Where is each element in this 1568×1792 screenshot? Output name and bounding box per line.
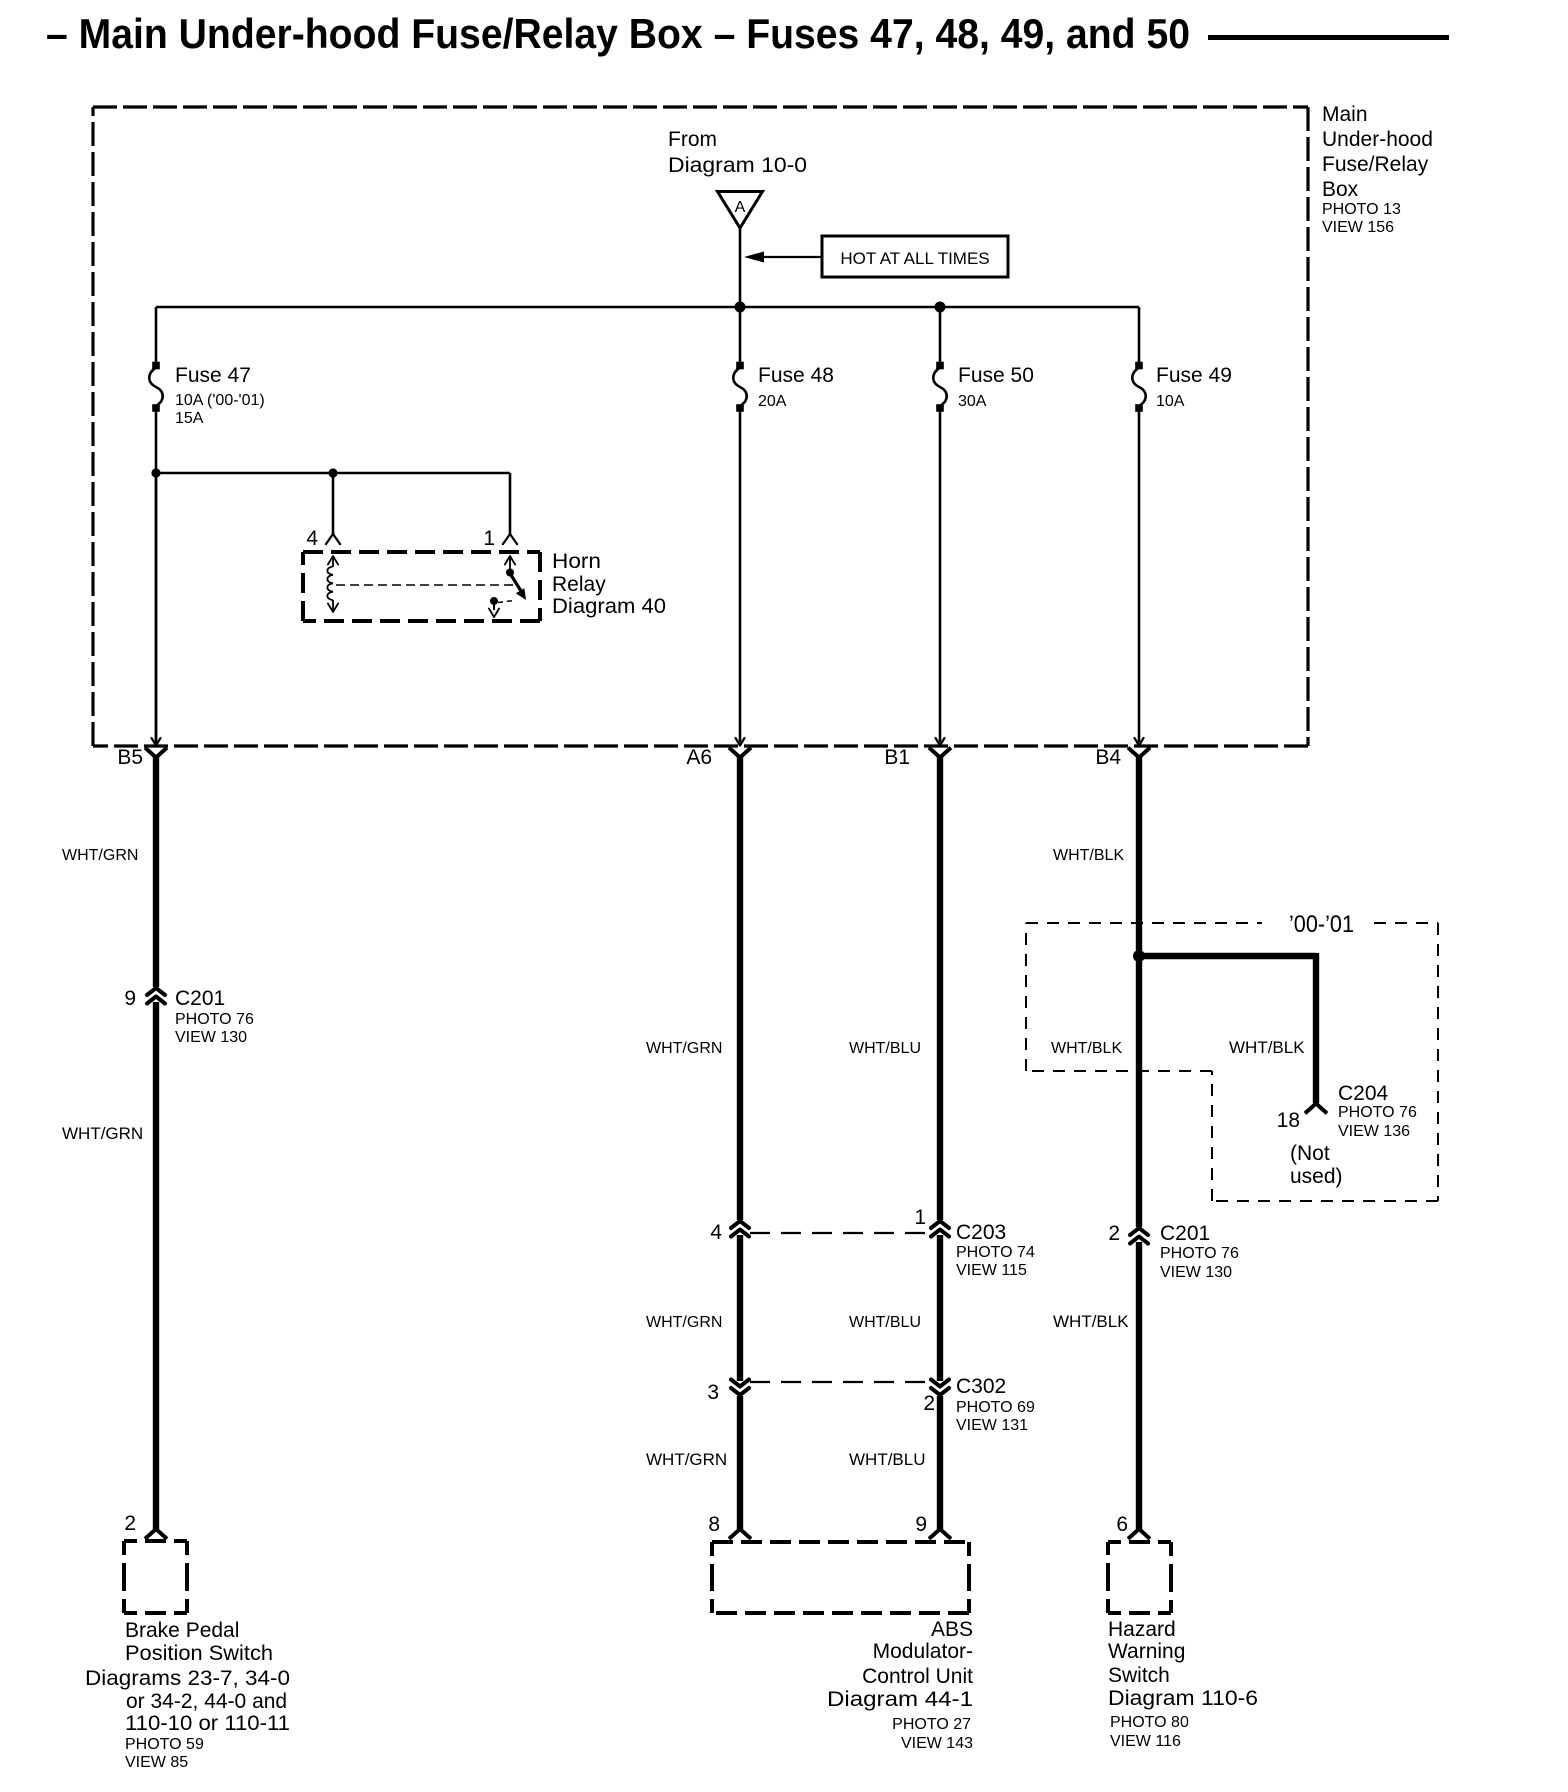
svg-text:A: A <box>735 199 746 216</box>
svg-text:used): used) <box>1290 1165 1343 1188</box>
svg-text:Under-hood: Under-hood <box>1322 128 1433 151</box>
svg-text:10A: 10A <box>1156 393 1185 410</box>
svg-text:9: 9 <box>124 987 136 1010</box>
svg-text:PHOTO 13: PHOTO 13 <box>1322 201 1401 218</box>
svg-text:Position Switch: Position Switch <box>125 1642 273 1665</box>
svg-text:18: 18 <box>1277 1109 1300 1132</box>
svg-text:Fuse 48: Fuse 48 <box>758 364 834 387</box>
svg-text:Diagrams 23-7, 34-0: Diagrams 23-7, 34-0 <box>85 1667 290 1690</box>
svg-text:Diagram 110-6: Diagram 110-6 <box>1108 1687 1258 1710</box>
svg-text:Fuse 47: Fuse 47 <box>175 364 251 387</box>
svg-text:Main: Main <box>1322 103 1368 126</box>
svg-text:VIEW 156: VIEW 156 <box>1322 219 1394 236</box>
svg-text:30A: 30A <box>958 393 987 410</box>
svg-text:From: From <box>668 128 717 151</box>
svg-text:PHOTO 74: PHOTO 74 <box>956 1244 1035 1261</box>
svg-text:Relay: Relay <box>552 573 606 596</box>
svg-text:PHOTO 76: PHOTO 76 <box>175 1011 254 1028</box>
svg-text:Fuse 49: Fuse 49 <box>1156 364 1232 387</box>
svg-text:1: 1 <box>483 527 495 550</box>
svg-text:C201: C201 <box>1160 1222 1210 1245</box>
svg-text:WHT/BLU: WHT/BLU <box>849 1314 921 1331</box>
svg-text:’00-’01: ’00-’01 <box>1289 911 1354 938</box>
svg-text:VIEW 143: VIEW 143 <box>901 1735 973 1752</box>
svg-text:2: 2 <box>1108 1222 1120 1245</box>
svg-text:(Not: (Not <box>1290 1142 1330 1165</box>
svg-text:Diagram 10-0: Diagram 10-0 <box>668 154 807 177</box>
svg-text:PHOTO 59: PHOTO 59 <box>125 1736 204 1753</box>
svg-text:Box: Box <box>1322 178 1359 201</box>
svg-text:Diagram 40: Diagram 40 <box>552 595 666 618</box>
svg-text:– Main Under-hood Fuse/Relay B: – Main Under-hood Fuse/Relay Box – Fuses… <box>46 10 1190 57</box>
svg-text:PHOTO 76: PHOTO 76 <box>1338 1104 1417 1121</box>
svg-text:VIEW 115: VIEW 115 <box>956 1262 1027 1279</box>
svg-text:110-10 or 110-11: 110-10 or 110-11 <box>125 1712 290 1735</box>
svg-text:1: 1 <box>914 1206 926 1229</box>
svg-text:B4: B4 <box>1095 746 1121 769</box>
svg-text:WHT/BLU: WHT/BLU <box>849 1040 921 1057</box>
svg-text:C204: C204 <box>1338 1082 1389 1105</box>
svg-text:VIEW 116: VIEW 116 <box>1110 1733 1181 1750</box>
svg-text:2: 2 <box>923 1392 935 1415</box>
svg-text:PHOTO 27: PHOTO 27 <box>892 1716 971 1733</box>
svg-text:Modulator-: Modulator- <box>873 1640 973 1663</box>
svg-text:PHOTO 80: PHOTO 80 <box>1110 1714 1189 1731</box>
svg-text:VIEW 131: VIEW 131 <box>956 1417 1028 1434</box>
svg-text:6: 6 <box>1116 1513 1128 1536</box>
svg-text:PHOTO 69: PHOTO 69 <box>956 1399 1035 1416</box>
svg-text:WHT/GRN: WHT/GRN <box>646 1314 722 1331</box>
svg-text:A6: A6 <box>686 746 712 769</box>
svg-text:VIEW 130: VIEW 130 <box>1160 1264 1232 1281</box>
svg-text:Fuse/Relay: Fuse/Relay <box>1322 153 1429 176</box>
svg-text:Control Unit: Control Unit <box>862 1665 973 1688</box>
svg-text:Brake Pedal: Brake Pedal <box>125 1619 239 1642</box>
svg-text:Fuse 50: Fuse 50 <box>958 364 1034 387</box>
svg-text:Horn: Horn <box>552 550 601 573</box>
svg-text:3: 3 <box>707 1381 719 1404</box>
svg-text:or 34-2, 44-0 and: or 34-2, 44-0 and <box>126 1690 287 1713</box>
svg-text:C302: C302 <box>956 1375 1006 1398</box>
svg-text:8: 8 <box>708 1513 720 1536</box>
svg-text:4: 4 <box>710 1221 722 1244</box>
svg-text:VIEW 85: VIEW 85 <box>125 1754 188 1771</box>
svg-text:Switch: Switch <box>1108 1664 1170 1687</box>
svg-text:PHOTO 76: PHOTO 76 <box>1160 1245 1239 1262</box>
svg-text:20A: 20A <box>758 393 787 410</box>
svg-text:4: 4 <box>306 527 318 550</box>
svg-text:WHT/BLK: WHT/BLK <box>1053 1312 1129 1331</box>
svg-text:10A ('00-'01): 10A ('00-'01) <box>175 392 265 409</box>
svg-text:C201: C201 <box>175 987 225 1010</box>
svg-text:B1: B1 <box>884 746 910 769</box>
svg-text:VIEW 130: VIEW 130 <box>175 1029 247 1046</box>
svg-text:Diagram 44-1: Diagram 44-1 <box>827 1688 973 1711</box>
svg-text:VIEW 136: VIEW 136 <box>1338 1123 1410 1140</box>
svg-text:9: 9 <box>915 1513 927 1536</box>
svg-text:2: 2 <box>124 1512 136 1535</box>
svg-text:WHT/BLK: WHT/BLK <box>1053 847 1124 864</box>
svg-text:15A: 15A <box>175 410 204 427</box>
svg-text:ABS: ABS <box>931 1618 973 1641</box>
svg-text:HOT AT ALL TIMES: HOT AT ALL TIMES <box>840 249 989 268</box>
svg-text:WHT/GRN: WHT/GRN <box>62 1124 143 1143</box>
svg-text:Hazard: Hazard <box>1108 1618 1176 1641</box>
svg-text:WHT/GRN: WHT/GRN <box>646 1040 722 1057</box>
svg-text:WHT/BLK: WHT/BLK <box>1229 1038 1305 1057</box>
svg-text:WHT/BLU: WHT/BLU <box>849 1450 926 1469</box>
svg-text:Warning: Warning <box>1108 1640 1185 1663</box>
svg-text:WHT/BLK: WHT/BLK <box>1051 1040 1122 1057</box>
svg-text:WHT/GRN: WHT/GRN <box>62 847 138 864</box>
svg-text:B5: B5 <box>117 746 143 769</box>
svg-text:WHT/GRN: WHT/GRN <box>646 1450 727 1469</box>
svg-text:C203: C203 <box>956 1221 1006 1244</box>
